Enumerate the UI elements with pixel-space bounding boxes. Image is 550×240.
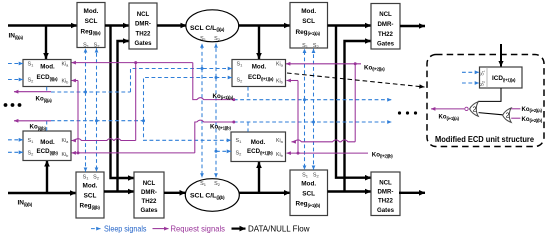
C-element C2 (2 of 2) xyxy=(503,108,512,122)
sleep arrow into ECD(i)(b) S1 xyxy=(8,139,23,141)
svg-text:Mod.: Mod. xyxy=(83,183,98,190)
svg-text:Mod.: Mod. xyxy=(251,139,266,146)
svg-text:DMR-: DMR- xyxy=(141,189,157,196)
request net Ko(i+2)(b) to ECD(i+1)(b) Kib xyxy=(287,152,369,154)
wire REG(i+1)(a) to NCL gates 2 xyxy=(328,24,372,26)
sleep riser REG(i+1)(a) S2 / REG(i+1)(b) S2 xyxy=(313,49,315,170)
register REG(i)(b) xyxy=(76,172,104,218)
wire IN(i)(b) input xyxy=(8,192,76,194)
wire junction up to ECD(i+1)(b) xyxy=(258,162,260,193)
gates NCL DMR-TH22 (stage i+1 row b) xyxy=(371,172,400,216)
svg-text:S2: S2 xyxy=(28,150,35,156)
request output Ko(i)(b) xyxy=(14,120,51,122)
node IN(i)(b) label xyxy=(18,200,33,207)
wire junction to ECD(i+1)(a) xyxy=(258,26,260,60)
sleep arrow into ECD(i)(b) S2 xyxy=(8,151,23,153)
svg-text:S1: S1 xyxy=(200,181,207,187)
wire row a output xyxy=(400,25,425,27)
svg-text:Sleep signals: Sleep signals xyxy=(104,224,147,233)
svg-text:Kib: Kib xyxy=(62,152,69,158)
request input Ko(i+2)(b) of detail box xyxy=(511,117,520,119)
sleep stub ECD(i+1)(b) xyxy=(247,122,249,132)
wire SCL C/L(i)(a) to REG(i+1)(a) xyxy=(239,24,290,26)
svg-text:S2: S2 xyxy=(237,77,244,83)
request net Ko(i+2)(a) to ECD(i+1)(a) Kia xyxy=(286,62,361,65)
request input Ko(i+2)(a) of detail box xyxy=(511,108,520,110)
wire row b feedback up to NCL(a) xyxy=(118,41,130,192)
wire REG(i)(b) to NCL gates row b xyxy=(104,190,134,192)
svg-text:Gates: Gates xyxy=(141,207,159,214)
svg-text:SCL: SCL xyxy=(302,190,315,197)
request net Ko(i+2)(a) to ECD(i+1)(b) Kia xyxy=(292,64,356,142)
detail box Modified ECD unit structure xyxy=(427,55,544,147)
wire ICD output xyxy=(478,88,501,101)
svg-text:Mod.: Mod. xyxy=(301,8,316,15)
request output bubble xyxy=(465,107,468,110)
svg-text:S1: S1 xyxy=(237,61,244,67)
svg-text:Kia: Kia xyxy=(62,61,70,67)
sleep riser SCL C/L S1 xyxy=(201,44,203,178)
svg-text:S1: S1 xyxy=(83,42,90,48)
request net Ko(i+1)(b) to ECD(i)(a) Kib xyxy=(72,80,79,82)
wire NCL to SCL C/L(i)(b) xyxy=(164,192,186,194)
svg-text:Mod.: Mod. xyxy=(40,139,55,146)
sleep riser REG(i)(a) S2 / REG(i)(b) S2 xyxy=(95,48,98,171)
svg-text:Mod.: Mod. xyxy=(301,181,316,188)
register REG(i+1)(b) xyxy=(290,170,328,216)
wire REG(i+1)(b) to NCL gates 2 row b xyxy=(328,190,372,192)
svg-text:SCL: SCL xyxy=(302,18,315,25)
sleep rail stage i+1 row a xyxy=(234,98,392,101)
svg-text:DMR-: DMR- xyxy=(135,21,151,28)
svg-text:NCL: NCL xyxy=(379,179,392,186)
svg-text:NCL: NCL xyxy=(143,180,156,187)
svg-text:SCL: SCL xyxy=(84,192,97,199)
svg-text:TH22: TH22 xyxy=(142,198,158,205)
wire junction to ECD(i)(a) xyxy=(45,26,47,60)
sleep rail stage i+1 row b xyxy=(234,121,392,124)
net label Ko(i+2)(b) in box xyxy=(522,117,543,123)
svg-text:NCL: NCL xyxy=(379,11,392,18)
svg-text:Mod.: Mod. xyxy=(40,63,55,70)
wire DATA into ICD xyxy=(500,44,502,67)
sleep branch to ECD(i+1)(a) S1 xyxy=(131,67,233,92)
svg-text:2: 2 xyxy=(473,107,477,114)
sleep riser REG(i+1)(a) S1 / REG(i+1)(b) S1 xyxy=(304,49,306,170)
wire NCL to SCL C/L(i)(a) xyxy=(157,24,187,26)
net label Ko(i+2)(a) in box xyxy=(522,107,543,113)
net label Ko(i+2)(a) xyxy=(364,64,385,71)
sleep riser SCL C/L S2 xyxy=(215,44,217,178)
sleep branch to ECD(i+1)(a) S2 xyxy=(144,76,233,121)
ECD unit ECD(i)(a) xyxy=(23,60,71,87)
wire junction up to ECD(i)(b) xyxy=(46,161,48,194)
net label Ko(i)(b) xyxy=(30,124,47,131)
sleep arrow into ECD(i)(a) S1 xyxy=(8,63,23,65)
detector ICD(i+1)(a) xyxy=(480,67,523,88)
wire row b output xyxy=(399,192,425,194)
net label Ko(i+1)(a) xyxy=(213,93,234,100)
node IN(i)(a) label xyxy=(9,33,24,40)
request net Ko(i+2)(b) to ECD(i+1)(a) Kib xyxy=(287,80,299,82)
svg-text:S2: S2 xyxy=(214,181,221,187)
svg-text:DMR-: DMR- xyxy=(378,189,394,196)
svg-text:Request signals: Request signals xyxy=(171,224,226,233)
svg-text:Kib: Kib xyxy=(276,152,283,158)
svg-text:NCL: NCL xyxy=(137,11,150,18)
sleep arrow into ICD S1 xyxy=(462,71,479,73)
net label Ko(i+2)(b) xyxy=(372,151,393,158)
svg-text:Ko(i+1)(a): Ko(i+1)(a) xyxy=(439,115,460,121)
request output Ko(i)(a) xyxy=(14,91,51,93)
svg-text:S1: S1 xyxy=(302,173,309,179)
wire SCL C/L(i)(b) to REG(i+1)(b) xyxy=(239,192,290,194)
request net Ko(i+1)(a) to ECD(i)(b) Kia xyxy=(72,63,136,141)
svg-text:DMR-: DMR- xyxy=(378,21,394,28)
gates NCL DMR-TH22 (stage i row a) xyxy=(129,3,157,49)
svg-text:Modified ECD unit structure: Modified ECD unit structure xyxy=(435,135,534,144)
wire C2 output to C1 xyxy=(479,113,503,115)
request net Ko(i+1)(b) to ECD(i)(b) Kib xyxy=(72,152,195,154)
svg-text:Gates: Gates xyxy=(377,207,395,214)
svg-text:2: 2 xyxy=(506,113,510,120)
sleep stub ECD(i)(a) xyxy=(46,87,48,92)
svg-text:Gates: Gates xyxy=(135,40,153,47)
sleep stub ECD(i+1)(a) xyxy=(247,87,249,100)
svg-text:Kib: Kib xyxy=(62,78,69,84)
request net Ko(i+1)(b) upper run xyxy=(195,120,236,153)
sleep arrow into ICD S2 xyxy=(462,82,479,84)
svg-text:Mod.: Mod. xyxy=(252,63,267,70)
svg-text:Ko(i+2)(b): Ko(i+2)(b) xyxy=(522,117,543,123)
request net Ko(i+1)(a) to ECD(i)(a) Kia xyxy=(72,61,193,64)
net label Ko(i+1)(b) xyxy=(210,123,231,130)
svg-text:S2: S2 xyxy=(313,43,320,49)
svg-text:S2: S2 xyxy=(94,42,101,48)
request net Ko(i+1)(b) riser xyxy=(77,81,80,155)
continuation dots right xyxy=(398,111,417,114)
sleep rail row a xyxy=(51,91,131,93)
legend request signals xyxy=(153,224,226,233)
gates NCL DMR-TH22 (stage i row b) xyxy=(134,172,164,218)
net label Ko(i+1)(a) in box xyxy=(439,115,460,121)
legend data/null flow xyxy=(232,224,310,233)
legend sleep signals xyxy=(91,224,147,233)
wire row b feedback up to NCL2(a) xyxy=(345,41,372,192)
ECD unit ECD(i)(b) xyxy=(23,131,71,161)
svg-text:S1: S1 xyxy=(28,138,35,144)
svg-text:S2: S2 xyxy=(313,173,320,179)
callout dashed line to detail box xyxy=(287,73,425,87)
wire REG(i)(a) down to row b NCL xyxy=(111,26,135,179)
svg-text:Gates: Gates xyxy=(377,41,395,48)
svg-text:S2: S2 xyxy=(28,77,35,83)
svg-text:Ko(i+2)(a): Ko(i+2)(a) xyxy=(522,107,543,113)
wire REG(i+1)(a) down to row b NCL 2 xyxy=(336,26,371,178)
wire REG(i)(a) to NCL gates xyxy=(105,24,129,26)
svg-text:S2: S2 xyxy=(93,174,100,180)
request net Ko(i+1)(a) riser xyxy=(193,63,236,102)
svg-text:Kia: Kia xyxy=(276,61,284,67)
svg-text:S1: S1 xyxy=(200,36,207,42)
combinational logic SCL C/L(i)(b) xyxy=(185,179,239,212)
ECD unit ECD(i+1)(b) xyxy=(231,132,286,162)
svg-text:Kia: Kia xyxy=(276,138,284,144)
sleep arrow into ECD(i)(a) S2 xyxy=(8,79,23,81)
sleep stub ECD(i)(b) xyxy=(46,121,48,131)
wire IN(i)(a) input xyxy=(8,24,77,26)
net label Ko(i)(a) xyxy=(36,96,53,103)
svg-text:S2: S2 xyxy=(236,150,243,156)
svg-text:TH22: TH22 xyxy=(136,30,152,37)
sleep riser REG(i)(a) S1 / REG(i)(b) S1 xyxy=(84,48,87,171)
sleep branch to ECD(i+1)(b) S2 xyxy=(215,150,232,153)
gates NCL DMR-TH22 (stage i+1 row a) xyxy=(371,4,400,50)
svg-text:DATA/NULL Flow: DATA/NULL Flow xyxy=(248,224,310,233)
svg-text:Kia: Kia xyxy=(62,138,70,144)
svg-text:S1: S1 xyxy=(236,138,243,144)
svg-text:SCL: SCL xyxy=(85,18,98,25)
register REG(i)(a) xyxy=(77,3,105,49)
svg-text:Mod.: Mod. xyxy=(84,8,99,15)
sleep branch to ECD(i+1)(b) S1 xyxy=(142,119,231,140)
sleep rail row b xyxy=(51,120,144,122)
request output Ko(i+1)(a) of detail box xyxy=(431,108,464,110)
svg-text:S1: S1 xyxy=(83,174,90,180)
continuation dots left xyxy=(4,103,22,107)
svg-text:S1: S1 xyxy=(28,61,35,67)
C-element C1 (2 of 2) xyxy=(470,102,479,116)
register REG(i+1)(a) xyxy=(290,3,328,50)
svg-text:TH22: TH22 xyxy=(378,198,394,205)
svg-text:TH22: TH22 xyxy=(378,31,394,38)
svg-text:S1: S1 xyxy=(302,43,309,49)
svg-text:S2: S2 xyxy=(214,36,221,42)
request net Ko(i+2)(b) riser xyxy=(297,81,300,155)
combinational logic SCL C/L(i)(a) xyxy=(186,10,239,42)
svg-text:Kib: Kib xyxy=(276,78,283,84)
ECD unit ECD(i+1)(a) xyxy=(232,60,286,87)
